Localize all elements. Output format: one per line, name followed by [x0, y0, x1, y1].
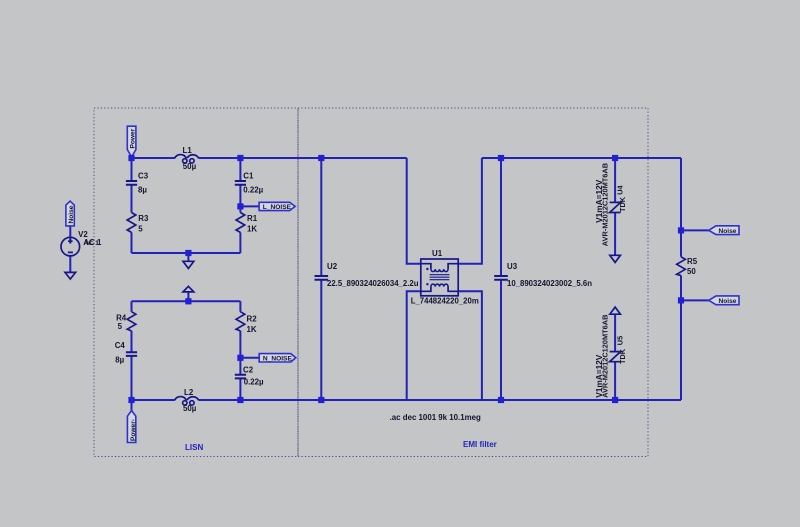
svg-text:1K: 1K [247, 225, 257, 234]
wire U1 bottom-right pin riser [458, 291, 482, 400]
wire to L_NOISE flag [240, 205, 259, 207]
wire U3 bus [500, 158, 502, 400]
label V2 [78, 230, 102, 247]
ground U5 (flipped) [610, 307, 621, 314]
label C2 [243, 366, 264, 387]
svg-text:50µ: 50µ [183, 162, 197, 171]
label L1 [183, 146, 197, 171]
flag text L_NOISE [263, 204, 292, 211]
transformer U1 [421, 259, 458, 296]
wire Power- stem [131, 400, 133, 411]
junction L_NOISE node [237, 203, 243, 209]
capacitor C2 [235, 375, 246, 379]
svg-text:AC 1: AC 1 [83, 238, 102, 247]
flag text Noise upper [719, 228, 737, 235]
svg-text:U1: U1 [432, 249, 443, 258]
wire U2 bus [320, 158, 322, 400]
label R4 [116, 313, 127, 331]
voltage source V2 [61, 237, 80, 256]
flag Noise upper right [709, 226, 739, 235]
label C1 [243, 171, 263, 194]
wire LISN left column top [131, 158, 133, 253]
svg-text:L_NOISE: L_NOISE [263, 204, 292, 211]
svg-text:R2: R2 [247, 315, 258, 324]
flag L_NOISE [259, 202, 295, 210]
junction bottom loop ground [185, 298, 191, 304]
wire bottom rail [132, 399, 682, 401]
flag text N_NOISE [263, 356, 293, 363]
svg-text:L_744824220_20m: L_744824220_20m [411, 297, 479, 306]
svg-text:U3: U3 [507, 262, 518, 271]
svg-text:10_890324023002_5.6n: 10_890324023002_5.6n [507, 279, 592, 288]
resistor R1 [236, 213, 245, 233]
resistor R3 [127, 213, 136, 233]
svg-text:R5: R5 [687, 257, 698, 266]
svg-text:C1: C1 [243, 171, 254, 180]
svg-text:N_NOISE: N_NOISE [263, 356, 293, 363]
wire top loop bottom [132, 252, 241, 254]
svg-text:8µ: 8µ [115, 356, 124, 365]
junction Noise upper [678, 227, 684, 233]
svg-text:R3: R3 [138, 214, 149, 223]
svg-text:50µ: 50µ [183, 404, 197, 413]
wire LISN right column top [239, 158, 241, 253]
svg-text:5: 5 [118, 322, 123, 331]
svg-text:0.22µ: 0.22µ [244, 377, 264, 386]
svg-text:0.22µ: 0.22µ [243, 186, 263, 195]
ground top loop [183, 261, 194, 268]
inductor L1 [175, 155, 199, 164]
junction bottom rail at Power- [128, 397, 134, 403]
flag N_NOISE [259, 354, 296, 362]
junction bottom rail at U5 [612, 397, 618, 403]
spice directive [390, 413, 481, 422]
ground bottom loop (flipped) [183, 286, 194, 292]
wire LISN left column bottom [131, 301, 133, 400]
wire U1 bottom-left pin riser [407, 291, 421, 400]
junction bottom rail at U3 [498, 397, 504, 403]
ground V2 [65, 272, 76, 279]
flag Noise lower right [709, 296, 739, 305]
wire V2 to ground [69, 256, 71, 273]
flag Noise at V2 [66, 201, 74, 226]
junction top rail at U2 [318, 155, 324, 161]
flag text Noise lower [719, 298, 737, 305]
flag text Power [130, 128, 137, 148]
label U1 [411, 249, 479, 305]
svg-text:Power: Power [130, 128, 137, 148]
label U2 [327, 262, 419, 288]
label R3 [138, 214, 149, 234]
svg-text:L2: L2 [184, 388, 194, 397]
junction N_NOISE node [237, 355, 243, 361]
wire U5 branch [614, 314, 616, 400]
flag Power [127, 126, 136, 157]
varistor U4 [610, 202, 621, 212]
resistor R4 [127, 312, 136, 331]
svg-text:U2: U2 [327, 262, 338, 271]
svg-text:Noise: Noise [719, 298, 737, 305]
varistor U5 [610, 352, 621, 362]
wire to Noise flag lower [681, 299, 709, 301]
svg-text:C4: C4 [115, 341, 126, 350]
junction top rail at Power [128, 155, 134, 161]
junction Noise lower [678, 297, 684, 303]
wire U1 top-right pin riser [458, 158, 482, 264]
svg-text:AVR-M2012C120MT6AB: AVR-M2012C120MT6AB [601, 163, 610, 246]
svg-text:TDK: TDK [618, 348, 627, 364]
wire to N_NOISE flag [240, 357, 259, 359]
transformer U1 phase dots [426, 268, 428, 286]
capacitor C4 [126, 352, 137, 356]
wire ground stem bottom loop [187, 292, 189, 301]
svg-text:AVR-M2012C120MT6AB: AVR-M2012C120MT6AB [601, 315, 610, 398]
svg-text:8µ: 8µ [138, 186, 147, 195]
wire ground stem top loop [187, 253, 189, 261]
wire right vertical [680, 158, 682, 400]
wire to Noise flag upper [681, 229, 709, 231]
svg-text:50: 50 [687, 267, 696, 276]
wire top rail right [482, 157, 681, 159]
junction top rail at U3 [498, 155, 504, 161]
svg-text:1K: 1K [247, 325, 257, 334]
junction top loop ground [185, 250, 191, 256]
junction bottom rail at U2 [318, 397, 324, 403]
svg-text:.ac dec 1001 9k 10.1meg: .ac dec 1001 9k 10.1meg [390, 413, 481, 422]
LISN dashed box [94, 108, 298, 457]
svg-text:U5: U5 [616, 336, 625, 345]
wire V2 to Noise flag [69, 226, 71, 244]
wire U4 branch [614, 158, 616, 255]
label C4 [115, 341, 126, 364]
label R2 [247, 315, 258, 335]
wire LISN right column bottom [239, 301, 241, 400]
capacitor U2 [315, 276, 329, 280]
label R5 [687, 257, 698, 276]
wire U1 top-left pin riser [407, 158, 421, 264]
svg-text:22.5_890324026034_2.2u: 22.5_890324026034_2.2u [327, 279, 419, 288]
inductor L2 [175, 397, 199, 406]
svg-text:LISN: LISN [185, 443, 203, 452]
capacitor C3 [126, 181, 137, 185]
flag text Power- [130, 419, 137, 441]
svg-text:C2: C2 [243, 366, 254, 375]
svg-text:Noise: Noise [68, 205, 75, 223]
wire top rail left [132, 157, 407, 159]
flag Power- [127, 411, 135, 443]
label U5 [594, 315, 627, 398]
svg-text:Power-: Power- [130, 419, 137, 441]
junction bottom rail at C2 [237, 397, 243, 403]
label U3 [507, 262, 592, 288]
label L2 [183, 388, 197, 413]
capacitor U3 [494, 276, 508, 280]
label U4 [594, 163, 627, 246]
flag text Noise at V2 [68, 205, 75, 223]
svg-text:Noise: Noise [719, 228, 737, 235]
ground U4 [610, 255, 621, 262]
label C3 [138, 171, 149, 194]
label R1 [247, 214, 258, 234]
svg-text:R1: R1 [247, 214, 258, 223]
svg-text:L1: L1 [183, 146, 193, 155]
wire bottom loop top [132, 300, 241, 302]
svg-text:EMI filter: EMI filter [463, 440, 497, 449]
svg-text:5: 5 [138, 225, 143, 234]
junction top rail at U4 [612, 155, 618, 161]
resistor R2 [236, 312, 245, 331]
svg-text:TDK: TDK [618, 196, 627, 212]
junction top rail at C1 [237, 155, 243, 161]
capacitor C1 [235, 181, 246, 185]
resistor R5 [677, 257, 686, 276]
svg-text:C3: C3 [138, 171, 149, 180]
EMI filter dashed box [298, 108, 648, 457]
svg-text:U4: U4 [616, 185, 625, 195]
